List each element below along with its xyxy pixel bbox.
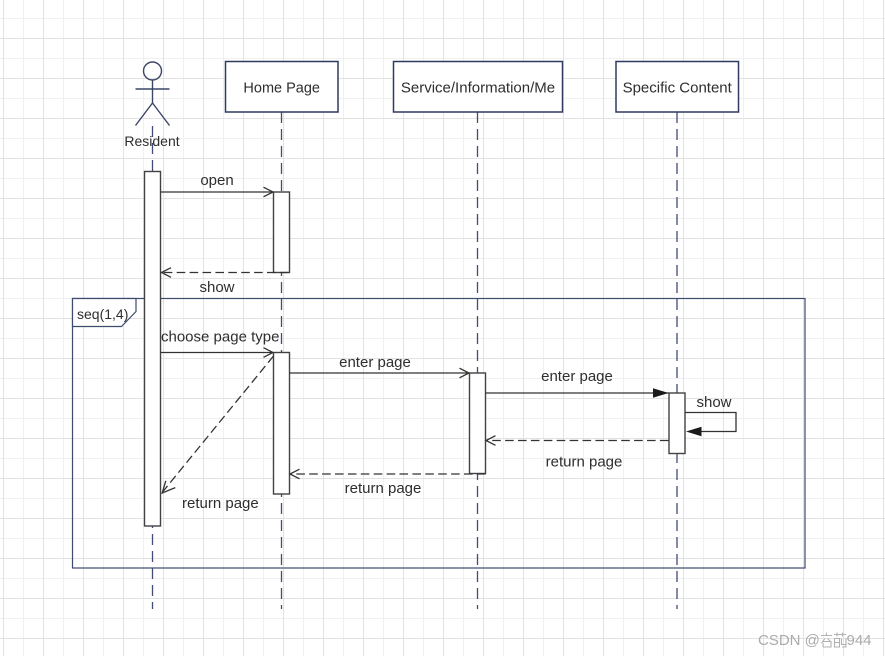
svg-text:enter page: enter page	[339, 354, 411, 371]
svg-text:Resident: Resident	[124, 133, 179, 149]
svg-text:944: 944	[847, 632, 872, 649]
message enter page (Home to Service)	[290, 368, 470, 378]
svg-text:return page: return page	[546, 454, 623, 471]
actor Resident	[136, 62, 170, 126]
activation Home Page 2	[274, 353, 290, 495]
self message show on Specific Content	[685, 413, 736, 437]
message choose page type	[161, 348, 274, 358]
svg-text:return page: return page	[182, 495, 259, 512]
svg-text:open: open	[200, 172, 233, 189]
message return page (Service to Home, dashed)	[290, 469, 486, 479]
message open	[161, 187, 274, 197]
object box Specific Content	[616, 62, 739, 113]
lifeline Resident	[152, 126, 154, 609]
message return page (Home to Resident, diagonal dashed)	[162, 356, 273, 493]
svg-text:return page: return page	[345, 480, 422, 497]
message enter page (Service to Specific, filled head)	[486, 388, 669, 397]
activation Service	[470, 373, 486, 474]
message return page (Specific to Service, dashed)	[486, 436, 669, 446]
lifeline Service/Information/Me	[477, 112, 479, 609]
svg-text:Home Page: Home Page	[243, 81, 320, 97]
svg-text:choose page type: choose page type	[161, 329, 279, 346]
watermark CSDN	[758, 632, 872, 649]
object box Service/Information/Me	[394, 62, 563, 113]
svg-text:enter page: enter page	[541, 368, 613, 385]
svg-text:Service/Information/Me: Service/Information/Me	[401, 80, 555, 97]
frame seq(1,4)	[73, 299, 806, 569]
watermark CJK glyph (approximation)	[834, 633, 846, 648]
svg-text:show: show	[199, 279, 234, 296]
message show (dashed return)	[162, 268, 289, 278]
svg-text:CSDN @: CSDN @	[758, 632, 820, 649]
svg-text:show: show	[696, 394, 731, 411]
activation Specific Content	[669, 393, 685, 454]
activation Home Page 1	[274, 192, 290, 273]
watermark CJK glyph (approximation)	[821, 633, 832, 648]
activation Resident	[145, 172, 161, 527]
lifeline Specific Content	[676, 112, 678, 609]
object box Home Page	[226, 62, 339, 113]
svg-text:seq(1,4): seq(1,4)	[77, 306, 128, 322]
svg-text:Specific Content: Specific Content	[623, 80, 733, 97]
lifeline Home Page	[281, 112, 283, 609]
